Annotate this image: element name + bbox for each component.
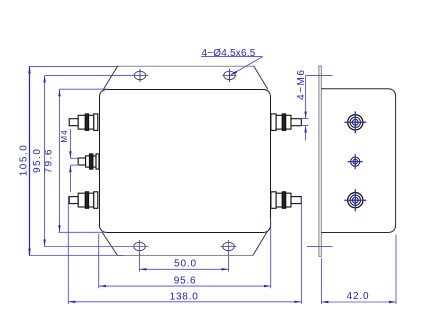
svg-text:95.6: 95.6 xyxy=(174,276,197,287)
svg-text:M4: M4 xyxy=(60,129,69,142)
svg-text:42.0: 42.0 xyxy=(347,291,370,302)
svg-text:4−Ø4.5x6.5: 4−Ø4.5x6.5 xyxy=(202,48,256,59)
svg-text:105.0: 105.0 xyxy=(18,144,29,177)
svg-text:4−M6: 4−M6 xyxy=(296,69,307,100)
svg-text:50.0: 50.0 xyxy=(174,259,197,270)
svg-text:79.6: 79.6 xyxy=(44,148,55,173)
svg-text:95.0: 95.0 xyxy=(32,148,43,173)
svg-text:138.0: 138.0 xyxy=(170,291,199,302)
